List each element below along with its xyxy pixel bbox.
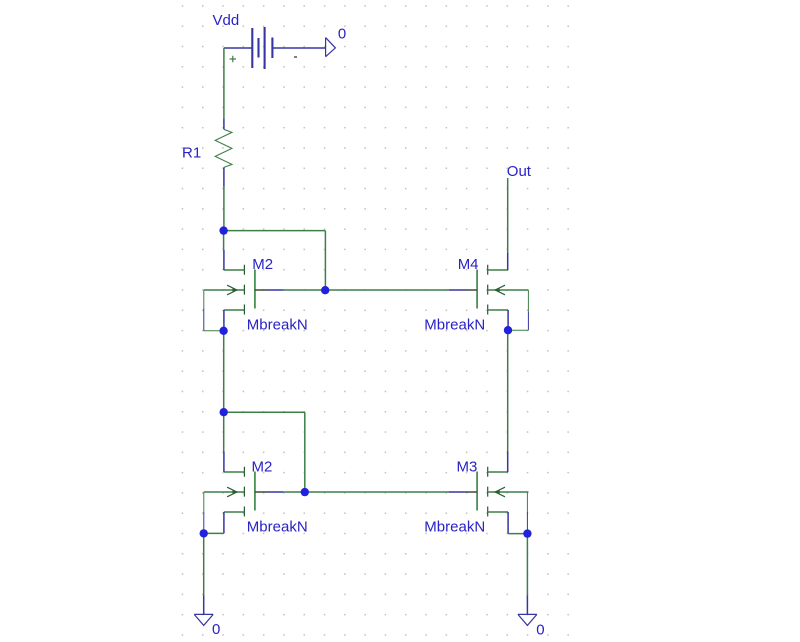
M4 source junction dot: [504, 326, 512, 334]
transistor M2 (top) source stub: [224, 309, 245, 311]
transistor M3 drain stub: [488, 471, 508, 473]
ground node dot bottom left: [200, 529, 208, 537]
wire Out to M4 drain: [507, 178, 509, 252]
M2 top gate pin: [255, 289, 267, 291]
M2 bottom gate pin: [255, 491, 267, 493]
transistor M2 (bottom) channel dashed line: [243, 467, 245, 517]
transistor M2 (top) bulk lead with arrow: [204, 289, 245, 291]
wire M3 source to ground node: [508, 533, 527, 535]
node A junction dot: [219, 226, 227, 234]
transistor M2 (bottom) source stub: [224, 511, 245, 513]
ground node dot bottom right: [523, 529, 531, 537]
M2 bottom source pin: [223, 512, 225, 533]
M2 bottom drain pin: [223, 452, 225, 473]
ground pin bottom right: [526, 596, 528, 615]
battery V1 Vdd left lead: [224, 47, 252, 49]
wire node A down to M2 drain: [223, 231, 225, 250]
svg-text:M2: M2: [252, 459, 273, 476]
wire M4 source node to M3 drain: [507, 330, 509, 451]
transistor M4 bulk lead with arrow: [488, 289, 529, 291]
battery plus marker: [230, 56, 236, 62]
resistor R1 bottom pin: [223, 167, 225, 186]
M2 top drain pin: [223, 250, 225, 270]
wire gate feed vertical: [324, 231, 326, 291]
wire node A horizontal to gate feed: [224, 230, 326, 232]
svg-text:0: 0: [212, 621, 220, 638]
svg-text:R1: R1: [182, 145, 201, 162]
svg-text:Out: Out: [507, 163, 532, 180]
wire M2 gate to junction: [283, 289, 325, 291]
transistor M2 (bottom) drain stub: [224, 471, 245, 473]
wire node B horizontal: [224, 411, 305, 413]
svg-text:0: 0: [338, 25, 346, 42]
wire R1 to node A: [223, 187, 225, 231]
battery V1 short plate 1: [257, 38, 259, 58]
svg-text:Vdd: Vdd: [213, 12, 240, 29]
M2 top bulk leg: [203, 290, 205, 309]
svg-text:0: 0: [536, 621, 544, 638]
wire M2 source node down to node B: [223, 331, 225, 412]
svg-text:M4: M4: [458, 256, 479, 273]
transistor M4 source stub: [488, 309, 508, 311]
transistor M3 source stub: [488, 511, 508, 513]
transistor M4 gate line: [476, 270, 478, 309]
transistor M2 (bottom) gate line: [254, 472, 256, 511]
resistor R1 zigzag body: [215, 129, 232, 167]
battery V1 long plate 2: [264, 27, 266, 69]
ground symbol top right: [326, 38, 336, 57]
ground pin bottom left: [203, 596, 205, 615]
M2 bottom bulk leg: [203, 492, 205, 512]
transistor M2 (bottom) bulk lead with arrow: [204, 491, 245, 493]
battery V1 right lead: [272, 47, 325, 49]
gate feed junction dot: [321, 286, 329, 294]
M2 top source junction dot: [219, 327, 227, 335]
ground symbol bottom right: [518, 614, 537, 625]
resistor R1 top pin: [223, 118, 225, 129]
wire junction to M3 gate: [305, 491, 449, 493]
M4 gate pin: [449, 289, 465, 291]
svg-text:M3: M3: [457, 459, 478, 476]
transistor M3 bulk lead with arrow: [488, 491, 529, 493]
wire to ground bottom right: [526, 534, 528, 596]
wire node B down to bottom gate row: [304, 412, 306, 492]
svg-text:MbreakN: MbreakN: [424, 519, 485, 536]
battery V1 long plate 1: [251, 28, 253, 68]
ground symbol bottom left: [194, 614, 213, 625]
transistor M3 channel dashed line: [487, 467, 489, 517]
battery minus marker: [294, 56, 297, 58]
M4 bulk leg: [527, 290, 529, 312]
transistor M2 (top) channel dashed line: [243, 265, 245, 315]
svg-text:MbreakN: MbreakN: [247, 519, 308, 536]
wire to ground bottom left: [203, 533, 205, 595]
wire M2b gate to junction: [283, 491, 305, 493]
transistor M2 (top) drain stub: [224, 269, 245, 271]
M3 drain pin: [507, 452, 509, 473]
transistor M3 gate line: [476, 472, 478, 511]
node B junction dot: [220, 408, 228, 416]
wire Vdd to R1: [223, 48, 225, 118]
M4 drain pin: [507, 252, 509, 270]
svg-text:MbreakN: MbreakN: [247, 317, 308, 334]
transistor M4 drain stub: [488, 269, 508, 271]
battery V1 short plate 2: [271, 38, 273, 59]
svg-text:MbreakN: MbreakN: [424, 317, 485, 334]
bottom gate junction dot: [301, 488, 309, 496]
M4 source pin: [507, 310, 509, 330]
transistor M4 channel dashed line: [487, 265, 489, 315]
transistor M2 (top) gate line: [254, 270, 256, 309]
M3 gate pin: [449, 491, 465, 493]
wire node B to M2b drain: [223, 412, 225, 451]
svg-text:M2: M2: [252, 256, 273, 273]
M2 top source pin: [223, 310, 225, 331]
wire junction to M4 gate: [325, 289, 449, 291]
wire source to ground node (bottom left): [204, 532, 224, 534]
M3 source pin: [507, 512, 509, 534]
M3 bulk leg: [526, 492, 528, 512]
